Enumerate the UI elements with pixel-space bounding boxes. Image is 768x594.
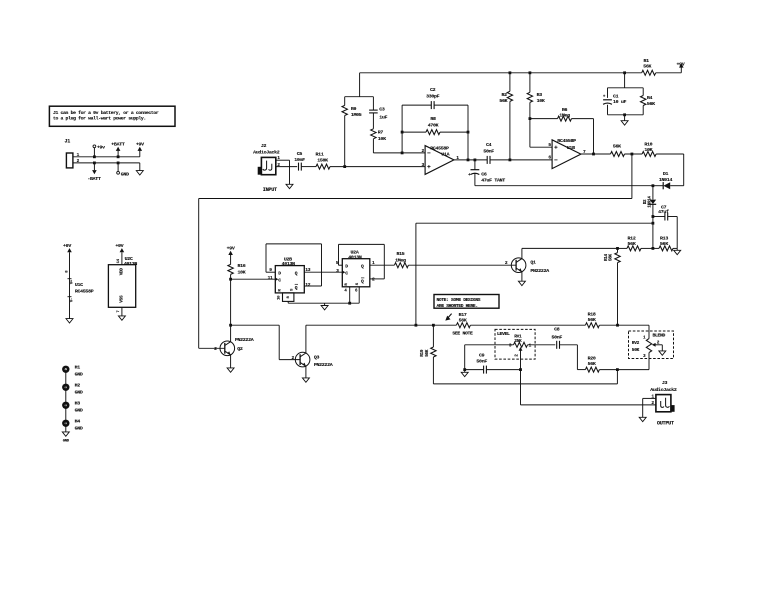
- svg-text:10K: 10K: [378, 136, 386, 142]
- ground at J2: [263, 184, 293, 193]
- wire U1B output: [581, 153, 611, 155]
- svg-text:50nF: 50nF: [483, 149, 494, 155]
- svg-text:U1A: U1A: [441, 152, 449, 158]
- ground at R13 C7: [674, 248, 681, 254]
- resistor R8: [426, 116, 440, 135]
- svg-text:to a plug for wall-wart power: to a plug for wall-wart power supply.: [53, 116, 146, 122]
- wire RV1 pin1 to C8: [528, 344, 556, 346]
- svg-text:10K: 10K: [644, 147, 652, 153]
- wire Q1 collector node: [522, 247, 618, 249]
- svg-text:10nF: 10nF: [294, 157, 305, 163]
- op-amp U1A: [422, 146, 460, 175]
- capacitor C4: [483, 142, 494, 164]
- op-amp U1C power pins: [63, 243, 94, 319]
- potentiometer RV2 BLEND box: [629, 331, 674, 359]
- svg-text:Q2: Q2: [237, 346, 243, 352]
- svg-text:C1: C1: [613, 93, 619, 99]
- ground at U1C: [66, 319, 73, 323]
- transistor Q1 PN2222A: [505, 258, 549, 274]
- wire RV1 pin3 to C9 node: [465, 344, 514, 346]
- wire J2 pin2 input: [276, 166, 297, 168]
- svg-text:56K: 56K: [660, 241, 668, 247]
- svg-text:47uF TANT: 47uF TANT: [481, 178, 505, 184]
- resistor R4: [641, 88, 656, 115]
- wire Q2 collector to node: [230, 325, 232, 342]
- IC U2B 4013N: [268, 256, 311, 301]
- svg-text:+9V: +9V: [115, 243, 123, 249]
- wire R20 to RV2 pin3: [599, 369, 649, 371]
- svg-text:56K: 56K: [588, 361, 596, 367]
- wire top rail corner to bar: [359, 73, 361, 97]
- svg-text:1M05: 1M05: [351, 112, 362, 118]
- svg-text:56K: 56K: [647, 101, 655, 107]
- capacitor C8: [552, 327, 563, 349]
- mount hole H1: [62, 365, 83, 378]
- svg-text:Q3: Q3: [314, 355, 320, 361]
- potentiometer RV1 25K: [509, 333, 532, 369]
- mount hole H4: [62, 419, 83, 432]
- svg-text:-BATT: -BATT: [87, 176, 101, 182]
- resistor R1: [642, 58, 656, 75]
- svg-text:R13: R13: [660, 235, 668, 241]
- svg-text:GND: GND: [75, 372, 83, 378]
- wire U1B output node down-left loop to Q2 base: [631, 154, 633, 199]
- svg-text:C8: C8: [554, 327, 560, 333]
- wire mount hole chain: [65, 369, 67, 432]
- svg-text:AudioJack2: AudioJack2: [650, 387, 677, 393]
- resistor R17: [452, 312, 473, 337]
- diode D2 1N914: [643, 186, 656, 217]
- svg-text:56K: 56K: [609, 253, 614, 261]
- capacitor C9: [476, 352, 487, 373]
- svg-text:RC4558P: RC4558P: [75, 289, 94, 295]
- power +9V top right: [676, 61, 684, 72]
- wire R18 to RV2: [599, 324, 649, 326]
- svg-text:PN2222A: PN2222A: [235, 337, 254, 343]
- resistor R16: [228, 255, 246, 279]
- ground at flip-flops: [321, 303, 328, 310]
- svg-text:R20: R20: [588, 355, 596, 361]
- resistor R6: [530, 107, 594, 121]
- wire U2A Qbar to D loop: [370, 278, 385, 280]
- svg-text:R1: R1: [644, 58, 650, 64]
- pin GND tap on J1 pin2: [117, 162, 129, 178]
- svg-text:4013N: 4013N: [282, 261, 296, 267]
- wire Q1 emitter to ground: [518, 272, 525, 286]
- ground at mount holes: [62, 432, 70, 443]
- svg-text:10 uF: 10 uF: [613, 99, 627, 105]
- wire +9V top rail: [360, 72, 642, 74]
- svg-text:U1C: U1C: [75, 282, 83, 288]
- wire C5 to R11: [301, 166, 316, 168]
- svg-text:RC4558P: RC4558P: [557, 138, 576, 144]
- svg-text:1Meg: 1Meg: [559, 112, 570, 118]
- svg-text:R12: R12: [628, 235, 636, 241]
- resistor R18: [585, 311, 599, 327]
- svg-text:LEVEL: LEVEL: [497, 331, 510, 337]
- wire C4 to U1B pin6: [490, 159, 552, 161]
- potentiometer RV1 LEVEL box: [495, 329, 535, 359]
- potentiometer RV2 50K: [632, 335, 663, 359]
- resistor R19: [420, 325, 436, 384]
- wire Q2 node to Q3 base: [231, 324, 280, 326]
- power +BATT flag: [111, 141, 125, 158]
- wire J1 pin2 rail: [73, 162, 140, 164]
- svg-text:4013N: 4013N: [124, 261, 138, 267]
- svg-text:PN2222A: PN2222A: [314, 362, 333, 368]
- svg-text:330pF: 330pF: [426, 94, 440, 100]
- svg-text:10K: 10K: [537, 98, 545, 104]
- wire R17 to R18: [470, 324, 585, 326]
- wire Q3 collector: [305, 325, 307, 353]
- svg-text:GND: GND: [75, 426, 83, 432]
- wire R8 loop: [402, 131, 426, 133]
- svg-text:25K: 25K: [514, 338, 522, 344]
- svg-text:50nF: 50nF: [476, 359, 487, 365]
- svg-text:+9V: +9V: [227, 245, 235, 251]
- svg-text:R3: R3: [537, 92, 543, 98]
- svg-text:NOTE: SOME DESIGNS: NOTE: SOME DESIGNS: [437, 297, 481, 303]
- op-amp U1B: [548, 138, 586, 169]
- resistor R12: [618, 235, 655, 251]
- svg-text:56K: 56K: [588, 317, 596, 323]
- svg-text:J3: J3: [662, 380, 668, 386]
- wire rail to C1 R4: [624, 73, 626, 88]
- svg-text:R6: R6: [562, 107, 568, 113]
- wire Q3 emitter to ground: [302, 366, 309, 382]
- svg-text:RC4558P: RC4558P: [430, 146, 449, 152]
- capacitor C3: [369, 97, 387, 121]
- ground at C9: [461, 370, 468, 377]
- wire R3 node to U1B pin5: [529, 119, 531, 148]
- ground at J3: [639, 417, 674, 426]
- svg-text:H4: H4: [75, 419, 81, 425]
- svg-text:56K: 56K: [425, 349, 430, 357]
- svg-text:150K: 150K: [317, 157, 328, 163]
- svg-text:1Meg: 1Meg: [395, 257, 406, 263]
- note: J1 power note box: [49, 106, 175, 126]
- IC U2A 4013N: [336, 250, 375, 294]
- capacitor C5: [294, 151, 305, 171]
- wire Q3 collector node to R17: [306, 324, 457, 326]
- svg-text:R15: R15: [396, 251, 404, 257]
- wire J2 pin1 to ground: [276, 159, 290, 161]
- svg-text:J2: J2: [261, 143, 267, 149]
- connector J1: [65, 139, 80, 168]
- transistor Q3 PN2222A: [292, 352, 333, 368]
- svg-text:+9v: +9v: [97, 145, 105, 151]
- svg-text:50nF: 50nF: [552, 334, 563, 340]
- capacitor C2: [426, 87, 440, 109]
- wire Q2 emitter to ground: [227, 355, 234, 372]
- svg-text:+BATT: +BATT: [111, 141, 125, 147]
- diode D1 1N914: [652, 171, 684, 189]
- wire R7 to U1A pin2: [373, 152, 425, 154]
- wire node to R17 node (long): [416, 222, 653, 224]
- svg-text:PN2222A: PN2222A: [530, 268, 549, 274]
- wire U1A output: [454, 159, 487, 161]
- svg-text:R9: R9: [351, 106, 357, 112]
- resistor 56K (output): [611, 143, 625, 156]
- svg-text:V-: V-: [71, 298, 75, 302]
- resistor R3: [527, 73, 545, 119]
- wire RV1 wiper to J3 pin2: [520, 370, 522, 405]
- wire Q1 collector: [521, 248, 523, 258]
- capacitor C6 47uF TANT: [468, 160, 505, 186]
- svg-text:H1: H1: [75, 365, 81, 371]
- wire U2B Qbar to D loop: [304, 285, 321, 287]
- svg-text:C2: C2: [430, 87, 436, 93]
- wire R19 bottom long: [433, 383, 617, 385]
- wire U2B U2A set reset to ground: [287, 301, 289, 303]
- wire C6 to D1 node: [475, 185, 653, 187]
- svg-text:+9V: +9V: [676, 61, 684, 67]
- wire J3 pin1 to ground: [643, 397, 656, 399]
- svg-text:H2: H2: [75, 383, 81, 389]
- svg-text:R7: R7: [378, 130, 384, 136]
- resistor R11: [316, 151, 330, 169]
- resistor R2: [499, 73, 512, 160]
- svg-text:D1: D1: [663, 171, 669, 177]
- wire R11 to U1A pin3: [330, 166, 425, 168]
- svg-text:INPUT: INPUT: [263, 187, 277, 193]
- svg-text:R11: R11: [316, 151, 324, 157]
- wire 56K to R10: [625, 153, 643, 155]
- resistor R10: [642, 141, 656, 156]
- svg-text:VDD: VDD: [120, 268, 125, 276]
- svg-text:C4: C4: [486, 142, 492, 148]
- svg-text:VSS: VSS: [120, 295, 125, 303]
- svg-text:50K: 50K: [632, 347, 640, 353]
- svg-text:+9V: +9V: [136, 142, 144, 148]
- svg-text:BLEND: BLEND: [653, 333, 666, 339]
- svg-text:H3: H3: [75, 401, 81, 407]
- svg-text:1uF: 1uF: [379, 114, 387, 120]
- svg-text:4013N: 4013N: [348, 254, 362, 260]
- svg-text:Q1: Q1: [530, 259, 536, 265]
- svg-text:11: 11: [268, 275, 273, 281]
- resistor R13: [653, 235, 677, 251]
- resistor R14: [604, 248, 620, 325]
- svg-text:RV2: RV2: [632, 340, 640, 346]
- svg-text:47uf: 47uf: [658, 209, 669, 215]
- power +9V flag at J1: [136, 142, 144, 157]
- wire R6 feedback to U1B output: [593, 119, 595, 154]
- svg-text:R18: R18: [588, 311, 596, 317]
- svg-text:OUTPUT: OUTPUT: [657, 420, 674, 426]
- wire C9 row: [465, 369, 484, 371]
- svg-text:56K: 56K: [499, 98, 507, 104]
- svg-text:U1B: U1B: [567, 145, 575, 151]
- mount hole H2: [62, 383, 83, 396]
- wire C7 down to R13 node: [676, 217, 678, 249]
- note arrow to R17: [446, 314, 451, 320]
- svg-text:R8: R8: [430, 116, 436, 122]
- capacitor C1: [603, 88, 643, 115]
- svg-text:10K: 10K: [238, 269, 246, 275]
- svg-text:R2: R2: [502, 92, 508, 98]
- ground at C1 R4: [621, 113, 628, 125]
- svg-text:AudioJack2: AudioJack2: [253, 150, 280, 156]
- resistor R20: [585, 355, 599, 372]
- svg-text:56K: 56K: [459, 318, 467, 324]
- svg-text:56K: 56K: [643, 64, 651, 70]
- svg-text:470K: 470K: [428, 122, 439, 128]
- svg-text:C9: C9: [479, 352, 485, 358]
- pin +9V tap on J1 pin1: [93, 145, 105, 159]
- capacitor C7: [652, 204, 678, 220]
- svg-text:1N914: 1N914: [659, 177, 673, 183]
- svg-text:GND: GND: [121, 171, 129, 177]
- svg-text:R16: R16: [238, 263, 246, 269]
- wire C2 loop: [402, 104, 431, 106]
- svg-text:GND: GND: [63, 439, 70, 443]
- wire C8 down to R20: [560, 344, 578, 346]
- svg-text:56K: 56K: [613, 143, 621, 149]
- svg-text:GND: GND: [75, 408, 83, 414]
- resistor R15: [394, 251, 408, 268]
- transistor Q2 PN2222A: [214, 337, 254, 356]
- svg-text:56K: 56K: [628, 241, 636, 247]
- connector J2 AudioJack2: [253, 143, 280, 175]
- resistor R9: [342, 97, 362, 167]
- svg-text:C5: C5: [297, 151, 303, 157]
- svg-text:R17: R17: [459, 312, 467, 318]
- wire U2A Q output: [370, 264, 395, 266]
- connector J3 AudioJack2: [650, 380, 677, 412]
- svg-text:12: 12: [305, 282, 310, 288]
- IC U2C power pins 4013N: [108, 243, 137, 316]
- wire U2B Q to U2A clock: [304, 271, 342, 273]
- svg-text:ARE SHORTED HERE.: ARE SHORTED HERE.: [437, 303, 478, 309]
- svg-text:+9V: +9V: [63, 243, 71, 249]
- svg-text:R4: R4: [647, 95, 653, 101]
- svg-text:R10: R10: [644, 141, 652, 147]
- wire R15 to Q1 base: [408, 264, 516, 266]
- wire R1 to +9V: [656, 72, 682, 74]
- power -BATT flag: [87, 162, 101, 183]
- svg-text:C6: C6: [481, 171, 487, 177]
- ground at U2C: [118, 316, 125, 320]
- svg-text:GND: GND: [75, 390, 83, 396]
- wire R16 node down to Q2 collector: [230, 279, 232, 325]
- svg-text:SEE NOTE: SEE NOTE: [452, 331, 473, 337]
- svg-text:1N914: 1N914: [648, 196, 653, 208]
- wire R16 node to U2B pin11: [231, 278, 276, 280]
- ground at J1: [136, 163, 143, 175]
- wire J1 pin1 rail: [73, 156, 140, 158]
- svg-text:J1: J1: [65, 139, 71, 145]
- svg-text:J1 can be for a 9v battery, or: J1 can be for a 9v battery, or a connect…: [53, 110, 159, 116]
- note: designs shorted here: [434, 295, 499, 309]
- mount hole H3: [62, 401, 83, 414]
- svg-text:C3: C3: [379, 106, 385, 112]
- resistor R7: [371, 113, 386, 153]
- wire R10 to D1 node: [656, 153, 684, 155]
- ground at RV2: [659, 351, 666, 355]
